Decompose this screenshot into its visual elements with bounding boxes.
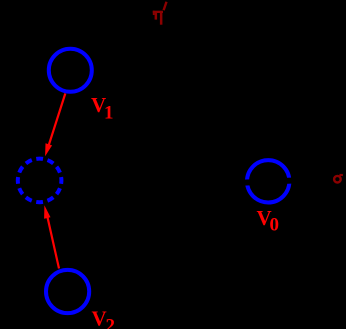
svg-text:1: 1 [104, 103, 114, 124]
vortex circle V1 [49, 49, 92, 92]
dashed circle (reconnection vortex) [18, 159, 62, 203]
label sigma (drawn glyph) [334, 175, 343, 183]
svg-text:V: V [92, 307, 107, 329]
arrow V2 to dashed circle: wire [47, 215, 59, 269]
eta prime mark [164, 2, 167, 11]
label eta (drawn glyph) [153, 11, 163, 25]
vortex circle V2 [46, 270, 89, 313]
arrow V1 to dashed circle: wire [48, 94, 65, 148]
arrow V1 to dashed circle: head [45, 143, 52, 156]
arrow V2 to dashed circle: head [44, 205, 50, 218]
sigma surface line crossing V0 (black, erases circle sides) [238, 180, 302, 183]
svg-text:0: 0 [270, 215, 280, 236]
vortex circle V0 [247, 160, 289, 202]
svg-text:2: 2 [106, 316, 116, 329]
